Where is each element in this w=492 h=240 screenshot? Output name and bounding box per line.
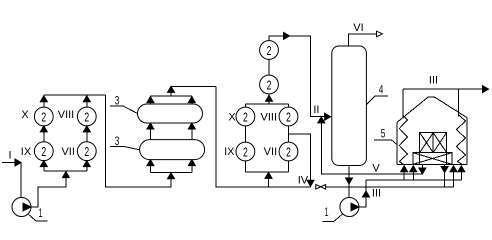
svg-text:5: 5	[381, 127, 386, 141]
wire IV branch	[289, 134, 311, 187]
arrow IV onto bottom line	[307, 180, 314, 186]
heat exchanger 2 (chain upper)	[260, 41, 279, 60]
wire vessel offtake down to bottom main line	[216, 86, 311, 186]
wire chain link	[268, 59, 270, 75]
leader 3 lower	[110, 146, 140, 150]
wire B top riser right	[288, 104, 290, 107]
arrow vessel lower bottom stub left	[147, 160, 154, 166]
heat exchanger 2 (B top-left)	[236, 107, 255, 126]
wire B center stub to chain	[268, 94, 270, 104]
svg-text:IV: IV	[298, 174, 309, 186]
column 4	[332, 46, 367, 166]
arrow B center stub	[266, 95, 273, 101]
furnace floor	[397, 163, 467, 165]
arrow A bottom-left stub	[40, 161, 47, 167]
wire bottom line right of valve	[326, 186, 454, 188]
wire A bottom header	[44, 170, 87, 172]
svg-text:1: 1	[325, 205, 329, 219]
furnace right riser	[457, 89, 459, 116]
valve on bottom line	[316, 185, 321, 190]
arrow A top-left riser	[40, 96, 47, 102]
heat exchanger 2 (A bottom-left)	[34, 142, 53, 161]
wire A bottom-right stub	[86, 161, 88, 171]
wire furnace left tap 1	[403, 166, 405, 180]
arrow A top-right riser	[83, 96, 90, 102]
arrow pump right discharge	[363, 191, 370, 197]
wire B bottom stub right	[288, 161, 290, 172]
svg-text:2: 2	[267, 77, 272, 92]
heat exchanger 2 (chain lower)	[260, 75, 279, 94]
svg-text:X: X	[21, 109, 29, 121]
arrow group B feed stub	[265, 172, 272, 178]
wire A top header	[44, 94, 106, 96]
arrow chain line mid	[284, 32, 290, 39]
wire furnace right downcomer	[444, 164, 446, 186]
svg-text:2: 2	[243, 109, 248, 124]
svg-text:IX: IX	[21, 146, 32, 158]
svg-text:2: 2	[243, 144, 248, 159]
wire vessel lower bottom stub right	[191, 160, 193, 173]
furnace right coil	[457, 115, 466, 165]
wire vessel upper top header	[150, 95, 191, 97]
svg-text:VI: VI	[353, 22, 363, 34]
wire group B feed stub	[268, 172, 270, 186]
pump 1 leader line	[29, 214, 48, 221]
vessel 3 lower (capsule)	[140, 140, 205, 160]
wire vessel top offtake	[171, 86, 216, 96]
arrow inter-vessel stub right	[188, 123, 195, 129]
wire column bottoms	[348, 166, 350, 198]
wire B bottom stub left	[244, 161, 246, 172]
heat exchanger 2 (A bottom-right)	[77, 142, 96, 161]
arrow V riser top	[318, 117, 325, 123]
furnace 5 left riser	[402, 89, 404, 119]
arrow furnace right downcomer	[441, 167, 448, 173]
svg-text:III: III	[429, 75, 438, 87]
pump 1 (left)	[12, 198, 31, 217]
wire A header to vessel feed	[105, 95, 171, 187]
wire vessel upper top stub right	[191, 96, 193, 104]
arrow stream I	[15, 159, 21, 166]
wire B top riser left	[244, 104, 246, 107]
arrow A bottom-right stub	[83, 161, 90, 167]
arrow furnace left downcomer	[419, 168, 426, 174]
wire furnace right tap 2	[460, 166, 462, 180]
svg-text:2: 2	[267, 43, 272, 58]
arrow A inter-row right	[83, 126, 90, 132]
svg-text:2: 2	[286, 109, 291, 124]
svg-text:I: I	[8, 149, 11, 161]
arrow furnace right tap 2	[458, 166, 465, 172]
arrow vessel lower bottom stub right	[188, 160, 195, 166]
arrow A inter-row left	[40, 126, 47, 132]
arrow vessel 3 lower feed	[168, 173, 175, 179]
wire B inter-row right	[288, 126, 290, 142]
vessel 3 upper (capsule)	[138, 104, 203, 123]
arrow inter-vessel stub left	[147, 123, 154, 129]
wire VI overhead	[349, 34, 379, 46]
wire stream I inlet	[2, 163, 21, 198]
svg-text:II: II	[313, 104, 319, 116]
svg-text:VIII: VIII	[58, 109, 75, 121]
arrow into exchanger A bottom header	[62, 172, 69, 178]
arrow furnace left tap 2	[410, 166, 417, 172]
wire vessel 3 lower bottom header	[150, 171, 191, 173]
svg-text:III: III	[372, 187, 381, 199]
furnace roof	[397, 97, 467, 122]
heat exchanger 2 (B bottom-right)	[279, 142, 298, 161]
wire B bottom header	[245, 171, 288, 173]
furnace right wall	[466, 118, 468, 165]
arrow column bottoms	[346, 178, 353, 184]
wire furnace left tap 2	[412, 166, 414, 180]
svg-text:2: 2	[286, 144, 291, 159]
arrow vessel top offtake	[168, 86, 175, 92]
pump 1 (right)	[340, 198, 359, 217]
wire A inter-row left	[43, 126, 45, 142]
arrow furnace left tap 1	[401, 166, 408, 172]
furnace left coil	[399, 115, 407, 164]
wire furnace right tap 1	[453, 166, 455, 187]
svg-text:VII: VII	[61, 146, 74, 158]
wire pump right discharge	[359, 180, 366, 207]
arrow VI (open)	[377, 31, 383, 37]
wire fuel header H2	[366, 179, 461, 181]
wire furnace flue line III	[403, 88, 488, 90]
furnace burner box	[420, 133, 447, 153]
wire A top-left riser	[43, 95, 45, 107]
heat exchanger 2 (B top-right)	[279, 107, 298, 126]
wire V return riser	[321, 117, 422, 174]
wire vessel upper top stub left	[149, 96, 151, 104]
wire pump 1 discharge	[31, 172, 66, 207]
svg-text:4: 4	[379, 83, 384, 97]
svg-text:VII: VII	[264, 146, 277, 158]
pump right leader	[323, 214, 343, 221]
svg-text:2: 2	[41, 109, 46, 124]
wire furnace left downcomer	[421, 164, 423, 174]
svg-text:2: 2	[41, 144, 46, 159]
leader 3 upper	[110, 106, 138, 114]
wire A top-right riser	[86, 95, 88, 107]
wire A inter-row right	[86, 126, 88, 142]
wire inter-vessel stub right	[191, 123, 193, 140]
arrow flue III	[483, 86, 489, 93]
svg-text:2: 2	[84, 144, 89, 159]
svg-text:X: X	[228, 112, 236, 124]
label 5 leader	[374, 140, 398, 145]
wire B inter-row left	[244, 126, 246, 142]
wire inter-vessel stub left	[149, 123, 151, 140]
svg-text:IX: IX	[224, 146, 235, 158]
label 4 leader	[366, 96, 388, 105]
furnace left wall	[396, 122, 398, 164]
wire B top header	[245, 103, 288, 105]
arrow vessel upper top stub left	[147, 97, 154, 103]
arrow II into column	[325, 113, 331, 120]
heat exchanger 2 (A top-left)	[34, 107, 53, 126]
arrow furnace right tap 1	[450, 166, 457, 172]
wire chain top to column feed	[269, 36, 331, 117]
furnace hearth box	[413, 153, 452, 165]
arrow vessel upper top stub right	[188, 97, 195, 103]
heat exchanger 2 (B bottom-left)	[236, 142, 255, 161]
wire A bottom-left stub	[43, 161, 45, 171]
svg-text:V: V	[372, 163, 380, 175]
wire vessel lower bottom stub left	[149, 160, 151, 173]
heat exchanger 2 (A top-right)	[77, 107, 96, 126]
svg-text:VIII: VIII	[261, 112, 278, 124]
svg-text:2: 2	[84, 109, 89, 124]
svg-text:1: 1	[39, 206, 43, 220]
